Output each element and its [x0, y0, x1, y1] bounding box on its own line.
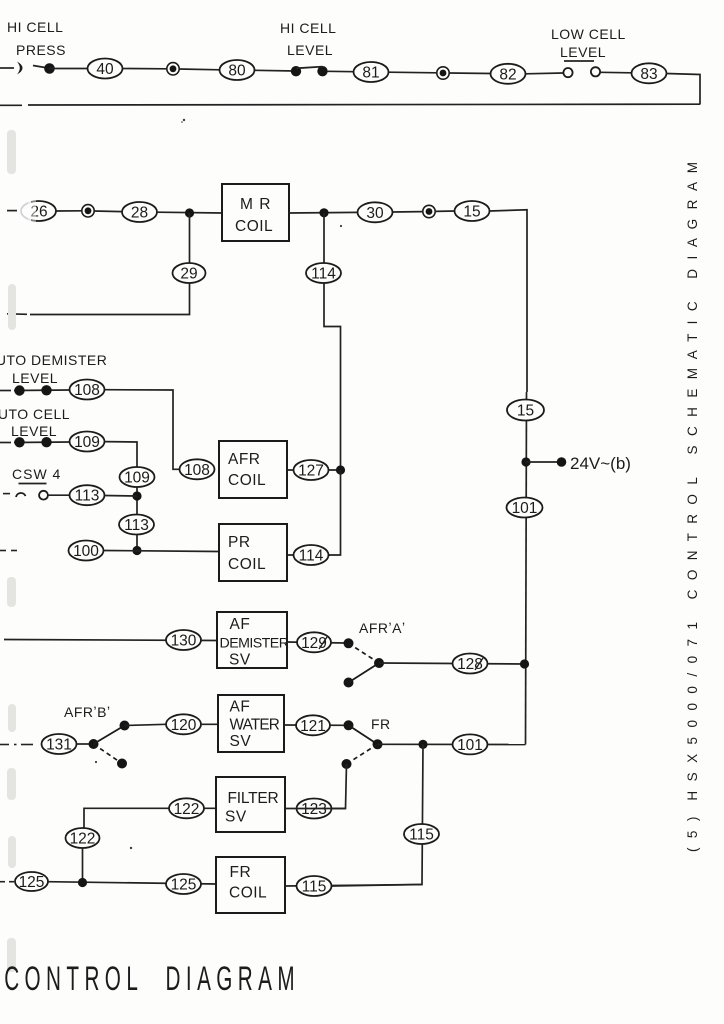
node 40: [88, 59, 123, 79]
svg-text:24V~(b): 24V~(b): [570, 454, 631, 473]
wire: [201, 723, 218, 725]
svg-text:HI CELL: HI CELL: [7, 19, 63, 35]
svg-text:101: 101: [457, 737, 483, 754]
wire MR coil right: [289, 211, 358, 214]
node 26: [19, 199, 56, 223]
svg-text:109: 109: [124, 470, 150, 487]
svg-text:LOW CELL: LOW CELL: [551, 26, 626, 42]
svg-text:28: 28: [131, 205, 148, 222]
contact HI CELL LEVEL (closed bridge): [291, 66, 328, 76]
svg-text:CSW 4: CSW 4: [12, 466, 61, 482]
svg-text:113: 113: [75, 488, 100, 505]
wire top-right corner down: [667, 74, 701, 105]
svg-text:LEVEL: LEVEL: [287, 42, 333, 58]
node 113 column: [119, 515, 154, 535]
svg-text:81: 81: [362, 65, 379, 82]
svg-text:131: 131: [46, 737, 72, 754]
svg-text:82: 82: [499, 66, 516, 83]
node 125 left: [15, 872, 48, 891]
junction circle-dot: [437, 67, 449, 79]
wire lead dash: [7, 210, 17, 212]
svg-text:AFRʼAʼ: AFRʼAʼ: [359, 620, 406, 636]
svg-text:AUTO DEMISTER: AUTO DEMISTER: [0, 352, 107, 368]
svg-text:LEVEL: LEVEL: [11, 423, 57, 439]
node 115 at FR coil: [297, 876, 332, 896]
svg-text:120: 120: [171, 717, 197, 734]
wire to junction: [105, 495, 138, 498]
title CONTROL DIAGRAM: [4, 960, 294, 999]
svg-text:SV: SV: [225, 809, 247, 826]
junction node: [132, 546, 141, 555]
label HI CELL LEVEL: [280, 20, 336, 58]
node 114: [306, 263, 341, 283]
contact AFR'B': [77, 721, 130, 769]
contact LOW CELL LEVEL (open): [563, 67, 600, 77]
junction circle-dot: [82, 205, 94, 217]
node 81: [354, 62, 389, 82]
svg-text:COIL: COIL: [228, 472, 266, 489]
svg-text:29: 29: [180, 266, 197, 283]
wire left branch of MR: [30, 213, 190, 315]
wire: [600, 71, 631, 74]
wire: [57, 210, 82, 212]
junction node: [78, 878, 87, 887]
node 129: [297, 632, 331, 652]
wire: [125, 724, 167, 725]
node 127: [294, 460, 329, 480]
svg-text:CONTROL DIAGRAM: CONTROL DIAGRAM: [4, 960, 294, 999]
svg-text:123: 123: [301, 801, 327, 818]
node 125: [166, 874, 201, 894]
wire: [255, 69, 296, 72]
wire: [287, 642, 345, 643]
coil AFR: [219, 441, 287, 498]
junction node: [185, 208, 194, 217]
svg-text:127: 127: [298, 463, 324, 480]
svg-text:M R: M R: [240, 196, 271, 213]
contact FR: [342, 720, 383, 769]
label HI CELL PRESS: [7, 19, 66, 58]
svg-text:15: 15: [517, 403, 534, 420]
wire FR coil right: [285, 885, 422, 887]
junction circle-dot: [423, 205, 435, 217]
wire: [48, 494, 70, 496]
label CSW 4: [12, 466, 61, 484]
node 123: [297, 799, 332, 819]
node dot: [44, 63, 55, 74]
coil MR: [222, 184, 289, 241]
junction node on bus: [520, 659, 529, 668]
svg-text:FR: FR: [230, 864, 252, 881]
node 101 on bus: [507, 498, 543, 518]
wire 115 column: [332, 744, 424, 886]
coil FR: [216, 857, 285, 913]
node 29: [173, 263, 206, 283]
node 109 column: [120, 467, 155, 487]
wire row 125: [48, 882, 216, 884]
svg-text:PRESS: PRESS: [16, 42, 66, 58]
valve AF DEMISTER SV: [217, 612, 289, 669]
svg-text:WATER: WATER: [230, 717, 280, 734]
wire FILTER right: [285, 808, 346, 810]
svg-text:130: 130: [171, 633, 197, 650]
wire right branch of MR down: [324, 213, 341, 470]
node 15 on bus: [507, 400, 544, 421]
label LOW CELL LEVEL: [551, 26, 626, 61]
svg-text:AFRʼBʼ: AFRʼBʼ: [64, 704, 111, 720]
coil PR: [219, 524, 287, 581]
wire lead dash-dot: [0, 744, 33, 746]
wire lead dashes: [0, 550, 17, 552]
svg-text:LEVEL: LEVEL: [12, 370, 58, 386]
svg-text:DEMISTER: DEMISTER: [220, 636, 289, 652]
node 100: [69, 541, 104, 561]
label AUTO DEMISTER LEVEL: [0, 352, 107, 386]
svg-text:122: 122: [70, 831, 96, 848]
wire 123 branch: [332, 764, 347, 809]
junction node: [336, 465, 345, 474]
node 15: [455, 201, 490, 221]
label AUTO CELL LEVEL: [0, 406, 70, 439]
scan specks (decorative): [95, 119, 342, 849]
contact CSW4 hook: [16, 493, 26, 497]
node 108: [70, 380, 105, 400]
node 128: [453, 654, 488, 674]
svg-text:125: 125: [171, 877, 197, 894]
svg-text:114: 114: [299, 548, 324, 565]
wire 122 column to row 125: [82, 848, 84, 883]
node 24V~(b) tap: [521, 454, 631, 473]
wire 108 over to AFR coil: [105, 390, 181, 470]
node 113: [70, 485, 105, 505]
svg-text:COIL: COIL: [229, 885, 267, 902]
svg-text:SV: SV: [230, 733, 252, 750]
node 101 row FR: [453, 734, 488, 754]
wire second rail: [0, 104, 700, 105]
valve AF WATER SV: [218, 695, 284, 752]
wire: [123, 68, 167, 70]
svg-text:( 5 ) H S X 5 0 0 0 / 0 7 1: ( 5 ) H S X 5 0 0 0 / 0 7 1 C O N T R O …: [685, 162, 700, 852]
svg-text:121: 121: [300, 718, 326, 735]
wire: [94, 210, 122, 213]
contact AUTO CELL LEVEL: [14, 437, 70, 447]
wire lead dashes: [3, 493, 10, 495]
wire: [435, 210, 455, 212]
wire: [526, 72, 564, 75]
svg-text:HI CELL: HI CELL: [280, 20, 336, 36]
node 130: [166, 630, 201, 650]
wire lead dashes: [0, 881, 14, 883]
svg-text:109: 109: [74, 434, 100, 451]
svg-text:AFR: AFR: [228, 451, 261, 468]
svg-text:114: 114: [311, 266, 336, 283]
wire to right bus: [490, 210, 528, 392]
wire top rail lead-in: [0, 67, 14, 69]
svg-text:122: 122: [174, 801, 200, 818]
junction circle-dot: [167, 63, 179, 75]
wire: [49, 68, 88, 70]
junction node: [132, 491, 141, 500]
wire right bus: [526, 392, 527, 745]
svg-text:83: 83: [640, 66, 657, 83]
valve FILTER SV: [216, 777, 285, 832]
svg-text:113: 113: [124, 517, 149, 534]
svg-text:AUTO CELL: AUTO CELL: [0, 406, 70, 422]
wire lead dash: [0, 442, 11, 444]
wire into PR coil: [104, 551, 220, 552]
wire 109 column: [105, 442, 138, 551]
node 108 at AFR coil: [180, 459, 215, 479]
svg-text:125: 125: [19, 874, 45, 891]
svg-text:80: 80: [228, 63, 246, 80]
wire row FR to bus: [378, 743, 526, 745]
node 122: [169, 798, 204, 818]
svg-text:100: 100: [73, 543, 99, 560]
node 131: [42, 734, 77, 754]
contact AUTO DEMISTER LEVEL: [14, 385, 70, 396]
node 114 at PR coil: [294, 545, 329, 565]
svg-text:108: 108: [74, 382, 100, 399]
wire 114 bus down to PR coil: [329, 470, 341, 555]
node 30: [358, 202, 393, 222]
svg-text:AF: AF: [230, 699, 251, 716]
contact CSW4 open circle: [39, 491, 48, 500]
svg-text:PR: PR: [228, 534, 251, 551]
wire PR coil right: [287, 554, 330, 556]
svg-text:FILTER: FILTER: [228, 790, 279, 807]
wire 122 branch: [84, 808, 216, 828]
svg-text:101: 101: [512, 500, 538, 517]
svg-text:108: 108: [184, 462, 210, 479]
wire AFR coil right: [287, 469, 341, 471]
wire: [179, 68, 220, 71]
wire: [284, 724, 345, 726]
scan artifacts (not labelled: decorative): [7, 130, 16, 972]
wire: [327, 70, 354, 72]
svg-text:15: 15: [463, 204, 480, 221]
svg-text:FR: FR: [371, 716, 391, 732]
node 115 column: [404, 824, 439, 844]
svg-text:40: 40: [96, 61, 114, 78]
svg-text:115: 115: [409, 827, 434, 844]
svg-text:COIL: COIL: [228, 556, 266, 573]
wire into MR coil: [157, 211, 222, 214]
contact AFR'A': [344, 638, 385, 687]
node 121: [296, 715, 330, 735]
svg-text:LEVEL: LEVEL: [560, 44, 606, 60]
node 82: [491, 64, 526, 84]
svg-text:30: 30: [366, 205, 384, 222]
svg-text:COIL: COIL: [235, 218, 273, 235]
node 83: [632, 63, 667, 83]
node 120: [166, 714, 201, 734]
node 109: [70, 432, 105, 452]
wire: [449, 72, 491, 75]
junction node: [319, 208, 328, 217]
node 122 column: [66, 828, 100, 848]
svg-text:AF: AF: [230, 616, 251, 633]
svg-text:115: 115: [302, 879, 327, 896]
wire: [393, 211, 423, 213]
wire row 128: [379, 663, 525, 664]
node 28: [122, 202, 157, 222]
wire row 130: [4, 640, 217, 641]
wire lead dash: [0, 390, 11, 392]
wire dash: [7, 313, 27, 316]
junction node: [418, 740, 427, 749]
wire: [389, 71, 437, 74]
svg-text:SV: SV: [229, 652, 251, 669]
contact HI CELL PRESS plug: [17, 62, 48, 75]
node 80: [220, 60, 255, 80]
